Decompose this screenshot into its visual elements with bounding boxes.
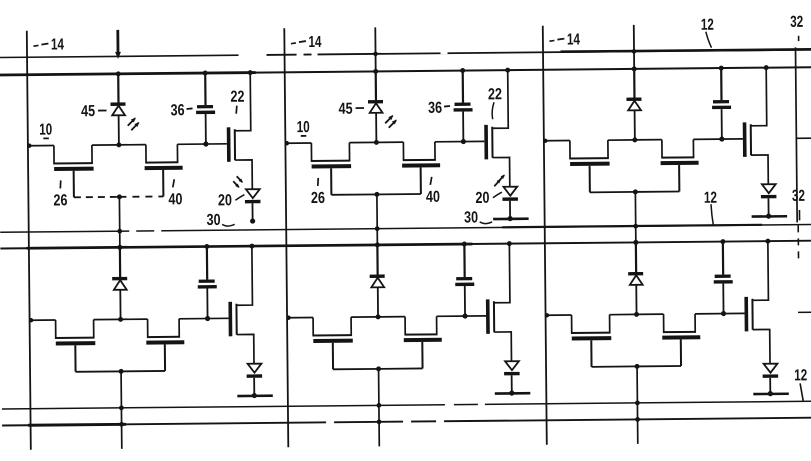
wire row bus (upper, middle) [0,224,811,232]
wire common node to bus below r1c3 [633,192,638,245]
capacitor C36 r2c2 [455,241,475,316]
light arrows of D45 r1c1 [128,116,141,130]
label 14 row line r1c1 [33,36,64,53]
label 45 r1c1 [81,103,107,120]
svg-text:22: 22 [230,89,244,106]
node storage junction r1c2 [374,140,379,145]
svg-text:40: 40 [426,189,440,206]
wire gate line r2c3 [695,312,744,314]
node supply junction r1c2 [373,69,378,74]
svg-text:30: 30 [207,212,221,229]
node capacitor-gate junction r2c3 [721,311,726,316]
transistor Q40 r2c3 [662,314,700,366]
label 30 r1c2 [464,209,492,226]
node storage junction r1c3 [632,137,637,142]
wire common node to bus below r2c2 [376,369,382,447]
label 40 r1c1 [168,179,182,208]
node supply junction r1c3 [632,66,637,71]
label 12 middle right [704,190,717,226]
transistor Q26 r1c2 [311,143,352,195]
label 22 r1c2 [488,86,502,119]
svg-text:20: 20 [475,190,489,207]
capacitor C36 r1c1 [196,70,216,144]
transistor Q40 r2c1 [146,319,184,371]
wire transistor top links r2c2 [351,316,405,319]
bus gaps (scan artifacts, middle) [129,229,161,233]
transistor Q26 r2c1 [55,320,96,372]
svg-text:14: 14 [51,36,64,53]
LED D20 r2c1 [247,364,263,396]
label 26 r1c2 [311,178,325,207]
node common source r1c3 [633,189,638,194]
LED D20 r1c2 [502,187,518,219]
node 30 terminal r1c1 [250,218,255,223]
node capacitor-gate junction r1c2 [461,139,466,144]
wire bottom common link r2c3 [592,365,681,368]
transistor Q40 r2c2 [404,316,442,368]
node stub on bus1 r1c3 [632,49,637,54]
wire row-select line 10 r1c1 [27,143,54,148]
node 30 terminal r2c1 [237,393,273,399]
transistor Q26 r2c2 [312,317,353,369]
transistor Q22 r2c3 [744,239,772,364]
photodiode D45 r2c1 [112,247,128,319]
LED D20 r1c3 [761,184,777,216]
transistor Q40 r1c2 [402,142,440,194]
label 10 r1c1 [39,122,52,139]
svg-text:30: 30 [464,209,478,226]
node stub on bus1 r1c2 [373,52,378,57]
svg-text:12: 12 [701,17,714,34]
label 12 bottom right [794,367,807,401]
wire column conductor 2 [284,28,288,447]
wire column conductor 3 [543,26,547,445]
wire gate line r1c1 [177,143,226,145]
wire supply bus (lower, top row) [0,67,811,75]
wire bottom common link r1c1 [74,195,163,198]
node common source r2c1 [119,369,124,374]
transistor Q40 r1c1 [144,144,182,196]
svg-text:45: 45 [338,101,352,118]
bus gaps (scan artifacts) [297,50,448,56]
capacitor C36 r2c1 [197,244,217,319]
arrowhead on row bus r1c1 [115,52,121,59]
node 30 terminal r2c2 [495,390,531,396]
node storage junction r2c1 [118,317,123,322]
svg-text:26: 26 [311,190,325,207]
label 40 r1c2 [426,177,440,206]
svg-text:12: 12 [794,367,807,384]
wire transistor top links r1c1 [92,144,146,147]
svg-text:22: 22 [488,86,502,103]
label 20 r1c2 [475,190,502,207]
label 10 r1c2 [297,119,310,136]
node capacitor-gate junction r1c1 [203,141,208,146]
node supply junction r2c3 [633,240,638,245]
label 20 r1c1 [218,192,245,209]
wire bottom common link r2c2 [333,367,422,370]
node capacitor-gate junction r1c3 [719,136,724,141]
label 26 r1c1 [53,180,67,209]
label 22 r1c1 [230,89,244,114]
wire transistor top links r2c1 [94,318,148,321]
wire column conductor 1 [27,31,31,450]
capacitor C36 r2c3 [713,239,733,314]
node capacitor-gate junction r2c2 [462,313,467,318]
capacitor C36 r1c2 [453,68,473,142]
node common source r1c1 [117,194,122,199]
label 14 row line r1c2 [291,34,322,51]
LED D20 r2c2 [504,361,520,393]
wire common node to bus below r2c1 [119,371,125,449]
label 32 top right [790,14,803,41]
wire transistor top links r1c2 [349,141,403,144]
wire bottom common link r1c3 [590,190,679,193]
bus gaps (scan artifacts, bottom supply) [326,420,444,425]
wire supply bus (lower, middle) [0,241,811,249]
svg-text:12: 12 [704,190,717,207]
wire common node to bus below r1c2 [374,194,379,247]
node common source r1c2 [374,192,379,197]
wire common node to bus below r2c3 [635,366,641,444]
transistor Q22 r1c3 [742,65,770,184]
svg-text:36: 36 [170,102,184,119]
wire gate line r1c2 [435,140,484,142]
node capacitor-gate junction r2c1 [205,316,210,321]
node common source r2c3 [635,364,640,369]
label 45 r1c2 [338,101,364,118]
wire supply feed stub r1c3 [633,25,635,69]
label 30 r1c1 [207,212,235,229]
transistor Q22 r1c1 [226,70,254,189]
svg-text:20: 20 [218,192,232,209]
wire gate line r2c1 [179,317,228,319]
wire transistor top links r1c3 [608,139,662,142]
photodiode D45 r1c2 [368,71,384,142]
label 32 middle right [792,188,805,221]
LED D20 r2c3 [763,364,779,394]
wire row-select line 10 r2c1 [29,318,56,323]
wire supply feed stub r1c1 [116,30,119,52]
svg-text:36: 36 [428,100,442,117]
label 14 row line r1c3 [549,31,580,48]
node storage junction r2c2 [376,314,381,319]
label 12 top bus [701,17,714,48]
transistor Q22 r2c2 [485,241,513,361]
wire gate line r1c3 [693,138,742,140]
bus gaps (scan artifacts, bottom) [445,403,485,407]
node 30 terminal r2c3 [753,391,789,397]
node common source r2c2 [376,366,381,371]
transistor Q26 r1c3 [569,140,610,192]
label 36 r1c2 [428,100,450,117]
wire row-select line 10 r2c2 [286,315,313,320]
node supply junction r2c2 [375,242,380,247]
wire common node to bus below r1c1 [117,197,122,250]
svg-text:45: 45 [81,103,95,120]
transistor Q22 r2c1 [228,244,256,364]
light arrows of D45 r1c2 [385,113,398,127]
svg-text:14: 14 [308,34,321,51]
wire row-select line 10 r1c3 [543,138,570,143]
svg-text:40: 40 [168,191,182,208]
transistor Q22 r1c2 [484,68,512,187]
node 30 terminal r1c3 [752,213,788,219]
light arrows of D20 r1c2 [494,173,506,186]
wire supply bus (lower, bottom) [2,418,811,426]
wire row bus (upper, bottom) [2,401,811,409]
svg-text:32: 32 [792,188,805,205]
wire row-select line 10 r2c3 [545,313,572,318]
wire bottom common link r2c1 [76,370,165,373]
node storage junction r2c3 [634,312,639,317]
photodiode D45 r1c3 [626,69,642,140]
wire column conductor 4 (right edge, 32) [795,47,811,312]
svg-text:26: 26 [53,192,67,209]
photodiode D45 r2c3 [628,242,644,314]
wire row bus 14 (upper, top row) [0,49,811,57]
transistor Q26 r2c3 [571,315,612,367]
transistor Q40 r1c3 [660,139,698,191]
svg-text:10: 10 [297,119,310,136]
node 30 terminal r1c2 [493,216,529,222]
wire bottom common link r1c2 [331,193,420,196]
svg-text:10: 10 [39,122,52,139]
capacitor C36 r1c3 [712,65,732,139]
wire supply feed stub r1c2 [374,27,376,71]
photodiode D45 r1c1 [110,74,126,145]
wire gate line r2c2 [437,315,486,317]
LED D20 r1c1 [245,189,261,221]
node supply junction r1c1 [116,71,121,76]
svg-text:32: 32 [790,14,803,31]
wire row-select line 10 r1c2 [285,141,312,146]
svg-text:14: 14 [567,31,580,48]
photodiode D45 r2c2 [369,245,385,317]
light arrows of D20 r1c1 [233,176,244,189]
label 36 r1c1 [170,102,192,119]
node supply junction r2c1 [117,245,122,250]
wire transistor top links r2c3 [610,313,664,316]
transistor Q26 r1c1 [53,145,94,197]
node storage junction r1c1 [116,142,121,147]
